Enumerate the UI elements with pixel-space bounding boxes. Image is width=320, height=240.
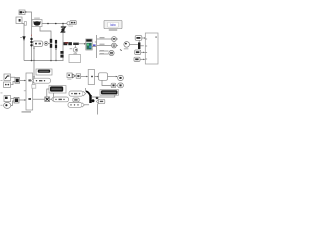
drop from chain to meter circle C5: [74, 45, 76, 48]
RL chain on bus branch: [30, 35, 32, 46]
display D2 dark: [100, 90, 119, 96]
diode leg x=51: [50, 39, 52, 61]
goto tag T3: [69, 91, 86, 96]
vertical into T2 tag: [33, 61, 35, 78]
tag block T1: [51, 97, 68, 102]
wire S to measurement bus: [92, 46, 96, 48]
goto tag T4: [68, 103, 84, 108]
IGBT Q1 on x=63 vertical: [61, 24, 66, 61]
measurement row 2: [97, 43, 118, 48]
measurement bus vertical: [96, 35, 98, 58]
mux bar: [138, 40, 144, 49]
control box B2: [16, 17, 22, 24]
diode stack on x=63 lower: [60, 51, 63, 58]
snubber block G: [33, 41, 43, 47]
display block R5: [69, 53, 81, 63]
connector circle + sensor block U: [67, 21, 76, 25]
label near IGBT: [69, 26, 74, 27]
source circle F4: [4, 102, 11, 108]
port P1: [118, 75, 124, 80]
vertical D1 to T1: [53, 93, 55, 97]
converter tall rect: [24, 73, 33, 110]
transform block C: [134, 57, 145, 61]
machine bottom pin: [40, 27, 51, 39]
wire D1 left elbow: [47, 89, 49, 96]
arrow into colored scope: [79, 43, 85, 45]
colored mini scope block S: [86, 39, 92, 50]
arrow up from rail to G: [33, 48, 35, 61]
wire to D2: [92, 95, 115, 97]
junction dots on output wire: [47, 23, 64, 25]
tiny left margin labels: [1, 80, 3, 81]
DC bus branch wire: [31, 24, 33, 61]
junction dots rail2: [31, 60, 57, 62]
svg-text:Iabc: Iabc: [110, 23, 116, 27]
tag T6: [96, 99, 104, 103]
measurement row 3 voltage: [99, 50, 122, 56]
display D1 dark: [49, 86, 66, 93]
big subsystem rect: [145, 33, 158, 64]
mux2 dark: [84, 88, 94, 105]
saturation rect VR: [88, 70, 94, 85]
merge comp 2: [11, 97, 26, 105]
terminator below T2: [33, 83, 35, 84]
vertical below T6: [97, 104, 99, 115]
wire from V1 to DC bus: [27, 12, 32, 24]
scope block: [104, 20, 122, 31]
constant block F2: [4, 82, 11, 87]
battery source block V1: [19, 10, 27, 15]
junction dot: [96, 97, 99, 100]
bottom rail: [24, 60, 64, 62]
right cluster: sum circle: [124, 42, 138, 50]
arrow up from rail x=56: [55, 48, 57, 50]
port P2: [116, 83, 124, 88]
horizontal diode chain y=43.5: [64, 42, 79, 45]
display D0: [36, 69, 52, 75]
wire B2 to machine input: [22, 23, 25, 25]
measurement row 1: [97, 37, 118, 42]
PMSM machine M: [32, 18, 42, 27]
label under converter: [22, 111, 32, 112]
wire Q to port P1: [108, 76, 117, 78]
rate block B3: [76, 74, 80, 79]
left branch wire down: [23, 24, 25, 61]
machine output wire: [42, 23, 68, 25]
bottom right: controller block Q: [95, 73, 108, 81]
tag block T2: [31, 78, 51, 83]
relay block B1: [67, 73, 72, 80]
product comp X: [33, 97, 53, 102]
diode leg x=56: [55, 40, 57, 61]
small tag T5: [73, 98, 79, 102]
machine left connector: [24, 22, 26, 26]
step block F1: [4, 74, 11, 81]
blue label right of S: [93, 44, 96, 46]
connector circle after G: [44, 42, 50, 46]
PI block: [135, 36, 146, 41]
meter circle C5: [73, 48, 77, 52]
wire B3 to VR: [81, 76, 87, 78]
block Q2: [102, 80, 116, 87]
merge comp 1: [11, 77, 27, 85]
diode D1 on left branch: [20, 37, 25, 42]
transform block B: [135, 50, 145, 55]
sine block F3: [4, 96, 11, 102]
gain triangle B2: [72, 74, 75, 78]
